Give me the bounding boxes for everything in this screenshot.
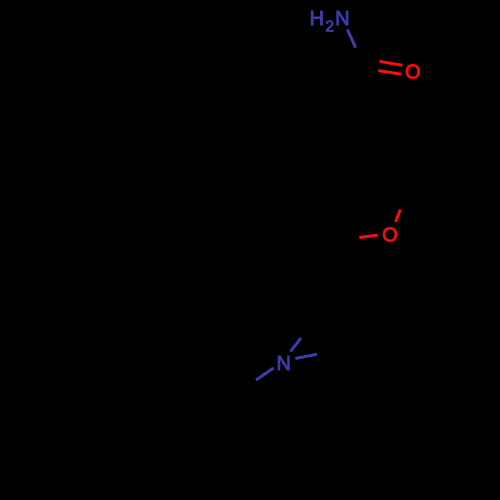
wire: double bond C=O top line, red half near O: [380, 61, 403, 65]
svg-text:N: N: [335, 8, 349, 30]
svg-text:O: O: [382, 225, 398, 247]
svg-text:H: H: [310, 8, 324, 30]
wire: bond C-O(ether) from left, red half near O: [359, 235, 378, 237]
svg-text:2: 2: [325, 19, 334, 36]
svg-text:N: N: [277, 353, 291, 375]
wire: bond N2-CH3 down-left, blue half near N: [256, 368, 274, 380]
wire: bond O(ether)-C up-right, red half near O: [396, 210, 401, 222]
wire: bond N1-C(=O), blue half near N: [347, 29, 355, 47]
wire: double bond C=O bottom line, red half near O: [378, 71, 401, 75]
wire: bond N2-C right, blue half near N: [295, 354, 316, 358]
svg-text:O: O: [405, 62, 421, 84]
wire: bond N2-C up-right, blue half near N: [291, 338, 302, 352]
